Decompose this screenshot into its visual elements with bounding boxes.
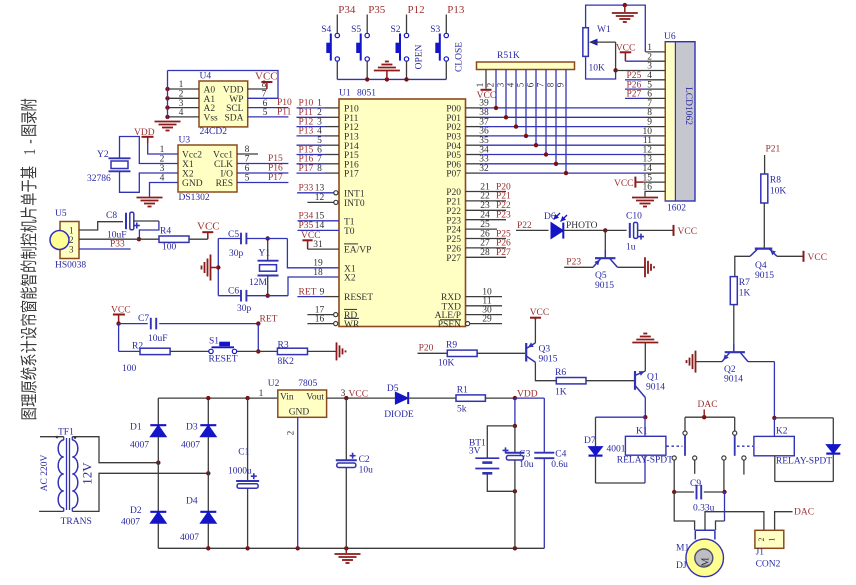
capacitor C6 30p <box>228 287 252 315</box>
svg-text:Q3: Q3 <box>539 345 551 355</box>
svg-text:18: 18 <box>313 268 323 278</box>
svg-text:Vcc2: Vcc2 <box>182 151 202 161</box>
svg-text:P12: P12 <box>408 4 425 16</box>
wire LCD pin10 bus <box>643 127 653 137</box>
svg-text:INT1: INT1 <box>344 189 365 199</box>
svg-text:的: 的 <box>21 260 40 273</box>
svg-text:Y2: Y2 <box>97 150 109 160</box>
svg-text:LCD1062: LCD1062 <box>683 87 693 125</box>
wire U4 SCL net P10 <box>248 98 292 108</box>
pushbutton S1 RESET <box>209 337 259 365</box>
svg-text:于: 于 <box>21 179 40 192</box>
svg-text:M1: M1 <box>676 544 689 554</box>
wire LCD pin5 <box>625 80 665 90</box>
svg-text:基: 基 <box>21 166 40 179</box>
diode D5 DIODE <box>384 384 414 420</box>
capacitor C7 10uF <box>119 314 259 344</box>
svg-text:T1: T1 <box>344 217 355 227</box>
wire U5 pin1 to C8 <box>79 222 123 230</box>
wire U1 pin7 P16 <box>297 155 340 165</box>
pushbutton S2 net P12 <box>390 4 424 79</box>
resistor R6 1K <box>555 368 586 398</box>
svg-text:单: 单 <box>21 193 40 206</box>
potentiometer W1 10K <box>583 25 616 74</box>
svg-text:9: 9 <box>320 287 325 297</box>
wire LCD pin14 bus <box>643 164 653 174</box>
svg-text:RES: RES <box>216 179 233 189</box>
wire U5 pin3 net P33 <box>79 239 131 249</box>
diode D2 4007 <box>121 463 166 549</box>
svg-text:P34: P34 <box>338 4 356 16</box>
wire U2 Vout net VCC <box>327 389 396 400</box>
svg-text:图: 图 <box>21 407 40 420</box>
wire crystal left vertical <box>211 239 221 296</box>
svg-text:R8: R8 <box>770 176 781 186</box>
svg-text:RESET: RESET <box>344 293 373 303</box>
svg-text:P23: P23 <box>496 211 511 221</box>
svg-text:设: 设 <box>21 327 40 340</box>
wire button common bus <box>337 77 446 81</box>
svg-text:100: 100 <box>162 243 177 253</box>
capacitor C9 0.33u <box>672 479 727 514</box>
ground buttons <box>374 62 400 80</box>
wire LCD pin2 <box>616 44 665 63</box>
wire U1 P04 pin35 bus to LCD <box>466 136 666 146</box>
wire U3 Vcc1 pin8 stub <box>237 153 258 155</box>
power VDD U3 pin1 <box>134 128 178 154</box>
svg-text:帘: 帘 <box>21 313 40 326</box>
svg-text:机: 机 <box>21 219 40 232</box>
svg-text:VCC: VCC <box>255 71 278 83</box>
wire crystal top rail <box>218 238 287 240</box>
IR receiver U5 HS0038 <box>50 209 86 271</box>
svg-text:3: 3 <box>341 389 346 399</box>
IC U3 DS1302 <box>160 136 250 204</box>
svg-text:窗: 窗 <box>20 300 40 313</box>
svg-text:32786: 32786 <box>87 174 111 184</box>
wire U1 pin2 P11 <box>297 108 340 118</box>
ground W1 <box>612 5 638 22</box>
svg-text:D4: D4 <box>186 497 198 507</box>
svg-text:31: 31 <box>313 240 323 250</box>
wire D5 to R1 <box>408 397 456 399</box>
svg-text:PSEN: PSEN <box>438 320 461 330</box>
transistor Q3 9015 <box>526 342 558 364</box>
svg-text:1: 1 <box>768 538 777 542</box>
wire U1 P01 pin38 bus to LCD <box>466 108 666 118</box>
svg-text:理: 理 <box>21 394 40 407</box>
svg-text:1000u: 1000u <box>228 467 252 477</box>
svg-text:1: 1 <box>259 389 264 399</box>
wire R51K pin5 to P03 <box>516 70 529 139</box>
resistor R7 1K <box>730 277 750 305</box>
svg-text:C4: C4 <box>555 450 566 460</box>
svg-text:VCC: VCC <box>614 179 634 189</box>
svg-text:P33: P33 <box>110 239 125 249</box>
diode D8 flyback K2 <box>774 418 840 482</box>
svg-text:2: 2 <box>69 235 74 245</box>
diode D4 4007 <box>180 473 216 548</box>
MCU U1 8051 <box>339 89 466 331</box>
svg-text:U1: U1 <box>339 89 351 99</box>
svg-text:Q5: Q5 <box>595 271 607 281</box>
ground Q5 <box>645 257 654 277</box>
wire Q5 collector to ground <box>618 266 645 268</box>
svg-text:5k: 5k <box>457 405 467 415</box>
svg-text:能: 能 <box>21 286 40 299</box>
svg-text:VCC: VCC <box>678 227 698 237</box>
crystal Y2 32786 <box>87 150 131 184</box>
power VCC Q3 emitter <box>530 308 550 343</box>
svg-text:HS0038: HS0038 <box>55 261 86 271</box>
wire R8 to Q4 base <box>763 203 765 249</box>
svg-text:PHOTO: PHOTO <box>566 221 598 231</box>
capacitor C2 10u <box>336 398 373 548</box>
capacitor C8 10uF <box>106 211 140 241</box>
wire U3 RES net P17 <box>237 173 288 183</box>
svg-text:8051: 8051 <box>357 89 376 99</box>
wire U1 T1 pin15 net P34 <box>298 212 340 222</box>
svg-text:8K2: 8K2 <box>278 357 295 367</box>
svg-text:P13: P13 <box>299 127 314 137</box>
wire AC input bottom <box>39 508 64 511</box>
svg-text:12: 12 <box>315 193 325 203</box>
svg-text:2: 2 <box>286 431 296 436</box>
svg-text:2: 2 <box>486 83 496 88</box>
svg-text:24CD2: 24CD2 <box>200 127 228 137</box>
switch throw contact K1 left <box>672 456 676 492</box>
svg-text:GND: GND <box>182 179 203 189</box>
wire Q1 collector to K1 <box>643 398 647 420</box>
svg-text:4007: 4007 <box>180 533 199 543</box>
svg-text:VCC: VCC <box>530 308 550 318</box>
svg-text:1: 1 <box>69 226 74 236</box>
wire U3 CLK net P15 <box>237 154 288 164</box>
svg-text:RET: RET <box>299 287 317 297</box>
wire R51K pin4 to P02 <box>506 70 519 129</box>
ground Q2 <box>687 351 696 373</box>
svg-text:12M: 12M <box>249 278 268 288</box>
wire U3 GND pin4 <box>150 183 179 197</box>
svg-text:RET: RET <box>260 315 278 325</box>
wire LCD pin4 <box>625 71 665 81</box>
wire Y2 bottom to U3 X2 <box>120 171 179 192</box>
wire U1 P24 pin25 stub <box>466 220 498 230</box>
resistor R8 10K <box>761 174 787 203</box>
wire U4 SDA net P11 <box>248 107 292 117</box>
label CLOSE <box>455 42 465 72</box>
power VCC after C10 <box>638 225 697 237</box>
svg-text:Q2: Q2 <box>724 365 736 375</box>
svg-text:D3: D3 <box>186 423 198 433</box>
wire U4 top loop to WP pin7 <box>168 71 279 99</box>
resistor network R51K <box>477 51 575 70</box>
svg-text:控: 控 <box>21 233 40 246</box>
wire net P20 to R9 <box>418 344 448 354</box>
wire R51K pin7 to P05 <box>536 70 549 157</box>
svg-text:X1: X1 <box>182 160 194 170</box>
wire U1 P25 pin26 stub <box>466 229 512 239</box>
wire U1 PSEN stub <box>466 314 503 325</box>
svg-text:4007: 4007 <box>121 518 140 528</box>
svg-text:28: 28 <box>480 248 490 258</box>
wire ground bottom rail <box>158 546 544 550</box>
svg-text:3: 3 <box>496 82 506 87</box>
pushbutton S5 net P35 <box>351 4 386 79</box>
svg-text:GND: GND <box>289 408 310 418</box>
wire Q1 emitter to ground <box>644 343 646 371</box>
wire LCD pin15 <box>614 173 665 189</box>
wire LCD pin9 bus <box>647 118 652 128</box>
svg-text:R7: R7 <box>739 278 750 288</box>
wire DC top rail <box>158 389 277 400</box>
svg-text:4: 4 <box>506 82 516 87</box>
svg-text:P17: P17 <box>299 164 314 174</box>
svg-text:P17: P17 <box>344 170 359 180</box>
wire U2 GND pin2 <box>286 417 298 548</box>
wire X1 to U1 pin19 <box>287 239 339 268</box>
svg-text:30p: 30p <box>237 304 252 314</box>
svg-text:9014: 9014 <box>724 375 743 385</box>
wire U1 X2 pin18 number <box>313 268 323 278</box>
svg-text:C1: C1 <box>238 448 249 458</box>
svg-text:K2: K2 <box>776 427 788 437</box>
wire U1 T0 pin14 net P35 <box>298 221 340 231</box>
svg-text:10K: 10K <box>589 64 606 74</box>
diode D7 4001 flyback <box>584 417 645 483</box>
wire R6 to Q1 base <box>586 380 635 382</box>
svg-text:AC 220V: AC 220V <box>40 455 50 492</box>
svg-text:R4: R4 <box>160 227 171 237</box>
pushbutton S3 net P13 <box>430 4 465 79</box>
IC U4 24CD2 <box>179 72 268 138</box>
wire U1 INT1 pin13 net P33 <box>297 184 338 195</box>
svg-text:I/O: I/O <box>220 170 233 180</box>
switch K2 pole contact <box>733 417 737 456</box>
transistor Q2 9014 <box>722 352 748 384</box>
svg-text:6: 6 <box>526 82 536 87</box>
connector J1 CON2 <box>755 530 784 569</box>
svg-text:DS1302: DS1302 <box>179 193 210 203</box>
wire U1 P23 pin24 stub <box>466 211 512 221</box>
wire U1 P21 pin22 stub <box>466 192 512 202</box>
ground U3 <box>137 198 163 207</box>
svg-text:1K: 1K <box>739 289 751 299</box>
svg-text:10K: 10K <box>770 187 787 197</box>
battery BT1 3V <box>469 398 517 493</box>
wire U1 pin4 P13 <box>297 127 340 137</box>
capacitor C3 10u <box>503 426 534 548</box>
pushbutton S4 net P34 <box>321 4 356 79</box>
wire U1 P00 pin39 bus to LCD <box>466 99 666 109</box>
LCD U6 LCD1062 <box>664 32 695 214</box>
switch K1 pole contact <box>683 417 687 456</box>
svg-text:R51K: R51K <box>497 51 520 61</box>
svg-text:10uF: 10uF <box>148 334 168 344</box>
power VCC reset <box>111 306 131 326</box>
power VCC after R4 <box>189 221 220 240</box>
svg-text:Vin: Vin <box>280 392 294 402</box>
svg-text:DIODE: DIODE <box>384 410 414 420</box>
svg-text:15: 15 <box>315 212 325 222</box>
svg-text:统: 统 <box>21 367 40 380</box>
svg-text:DAC: DAC <box>698 400 718 410</box>
label OPEN <box>415 44 425 69</box>
svg-text:4001: 4001 <box>607 445 626 455</box>
wire K1 actuation dashes <box>667 445 683 447</box>
svg-text:CON2: CON2 <box>756 560 781 570</box>
wire U1 P07 pin32 bus to LCD <box>466 164 666 174</box>
svg-text:INT0: INT0 <box>344 199 365 209</box>
switch throw contact K1 right stub <box>693 456 697 474</box>
svg-text:U6: U6 <box>664 32 676 42</box>
svg-text:Vout: Vout <box>306 392 324 402</box>
wire LCD pin11 bus <box>643 136 652 146</box>
wire Q2 emitter to ground <box>696 361 722 363</box>
svg-text:9015: 9015 <box>595 281 614 291</box>
svg-text:Q1: Q1 <box>647 373 659 383</box>
svg-text:M: M <box>701 557 712 566</box>
svg-text:U3: U3 <box>179 136 191 146</box>
wire secondary bottom to bridge <box>72 471 210 511</box>
wire R1 to VDD node <box>485 390 544 401</box>
wire R51K pin6 to P04 <box>526 70 539 148</box>
diode D3 4007 <box>181 398 216 473</box>
svg-text:12V: 12V <box>80 462 95 485</box>
svg-text:Q4: Q4 <box>755 261 767 271</box>
svg-text:-: - <box>21 139 40 143</box>
svg-text:TRANS: TRANS <box>61 517 92 527</box>
wire U1 RD pin17 <box>307 305 337 316</box>
svg-text:DAC: DAC <box>794 508 814 518</box>
svg-text:1u: 1u <box>626 243 636 253</box>
svg-text:P13: P13 <box>447 4 465 16</box>
motor M1 DJ <box>676 530 724 577</box>
svg-text:P23: P23 <box>566 258 581 268</box>
capacitor C10 1u <box>626 212 644 253</box>
svg-text:P20: P20 <box>419 344 434 354</box>
crystal Y1 12M <box>249 236 279 298</box>
svg-text:P27: P27 <box>627 90 642 100</box>
wire secondary top to bridge <box>72 437 160 465</box>
resistor R3 8K2 <box>277 341 307 368</box>
svg-text:制: 制 <box>21 246 40 259</box>
svg-text:D2: D2 <box>130 506 142 516</box>
wire U1 pin1 P10 <box>297 99 340 109</box>
wire contact top bus with DAC <box>685 400 735 419</box>
wire LCD pin3 <box>616 62 666 72</box>
wire LCD pin6 <box>625 90 665 100</box>
svg-text:W1: W1 <box>597 25 611 35</box>
wire R51K pin3 to P01 <box>496 70 509 120</box>
ground crystal <box>202 255 211 281</box>
wire Y2 top to U3 X1 <box>120 137 179 164</box>
wire LCD pin13 bus <box>643 155 653 165</box>
wire Q3 collector to R6 <box>535 362 556 381</box>
svg-text:P35: P35 <box>368 4 386 16</box>
svg-text:SDA: SDA <box>224 114 243 124</box>
wire W1 bottom loop <box>586 56 618 79</box>
wire U1 WR pin16 <box>307 314 337 325</box>
wire U3 I/O net P16 <box>237 163 288 173</box>
wire W1 top to ground and LCD pin1 <box>586 3 646 52</box>
svg-text:U5: U5 <box>55 209 67 219</box>
wire LCD pin7 bus <box>647 99 652 109</box>
svg-text:C6: C6 <box>228 287 239 297</box>
svg-text:图: 图 <box>21 124 40 137</box>
transistor Q1 9014 <box>635 371 665 398</box>
wire R51K pin2 to P00 <box>486 70 499 111</box>
wire LCD pin1 <box>646 43 666 53</box>
resistor R9 10K <box>438 341 477 369</box>
wire R51K pin1 to VCC <box>475 70 496 102</box>
power VCC Q4 emitter <box>777 251 827 263</box>
svg-text:C7: C7 <box>138 314 149 324</box>
svg-text:原: 原 <box>21 380 40 393</box>
svg-text:32: 32 <box>479 164 489 174</box>
svg-text:7805: 7805 <box>298 379 317 389</box>
svg-text:9014: 9014 <box>646 383 665 393</box>
wire LCD pin12 bus <box>643 145 653 155</box>
wire U1 RESET pin9 net RET <box>297 287 339 297</box>
wire U1 P26 pin27 stub <box>466 239 512 249</box>
wire RET to R3 <box>258 350 277 352</box>
svg-text:C10: C10 <box>626 212 642 222</box>
resistor R1 5k <box>456 386 485 415</box>
wire Q5 base net P23 <box>564 258 593 268</box>
wire U1 P05 pin34 bus to LCD <box>466 145 666 155</box>
wire R9 to Q3 base <box>477 352 525 354</box>
svg-text:D6: D6 <box>544 212 556 222</box>
svg-text:系: 系 <box>21 353 40 366</box>
wire R51K pin9 to P07 <box>556 70 569 176</box>
svg-text:5: 5 <box>516 82 526 87</box>
svg-text:10u: 10u <box>359 466 374 476</box>
svg-text:C8: C8 <box>106 211 117 221</box>
photodiode D6 PHOTO <box>544 212 598 239</box>
relay K2 RELAY-SPDT <box>754 416 832 467</box>
svg-text:8: 8 <box>546 82 556 87</box>
svg-text:2: 2 <box>757 538 766 542</box>
svg-text:X2: X2 <box>182 170 194 180</box>
wire R3 to ground <box>308 350 337 352</box>
svg-text:OPEN: OPEN <box>415 44 425 69</box>
wire U1 pin8 P17 <box>297 164 340 174</box>
wire C9 right to motor and J1 <box>716 492 725 530</box>
relay K1 RELAY-SPDT <box>617 417 673 483</box>
wire X2 to U1 pin18 <box>288 277 339 296</box>
wire U1 pin6 P15 <box>297 145 340 155</box>
svg-text:Vcc1: Vcc1 <box>213 151 233 161</box>
wire R51K pin8 to P06 <box>546 70 559 167</box>
svg-text:D7: D7 <box>584 436 596 446</box>
svg-text:C2: C2 <box>359 455 370 465</box>
wire U5 pin2 <box>79 238 159 240</box>
svg-text:VCC: VCC <box>808 253 828 263</box>
svg-text:8: 8 <box>317 164 322 174</box>
svg-text:TF1: TF1 <box>58 428 74 438</box>
wire U1 P03 pin36 bus to LCD <box>466 127 666 137</box>
svg-text:3V: 3V <box>469 447 481 457</box>
svg-text:J1: J1 <box>756 548 765 558</box>
svg-text:P33: P33 <box>299 184 314 194</box>
wire AC input top <box>40 437 64 440</box>
svg-text:P11: P11 <box>277 107 292 117</box>
wire C9 left to motor <box>674 492 694 530</box>
transformer TF1 TRANS <box>40 428 95 528</box>
svg-text:X2: X2 <box>344 274 356 284</box>
svg-text:3: 3 <box>69 245 74 255</box>
